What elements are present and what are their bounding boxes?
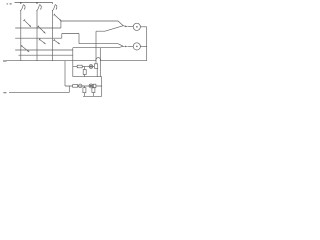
lead into motor 2 bbox=[128, 45, 134, 47]
row2 jog up bbox=[61, 34, 63, 39]
stub to QF2 bbox=[36, 3, 38, 5]
control feed vertical bbox=[72, 48, 74, 77]
output row 1 bbox=[15, 27, 61, 29]
coil KM bbox=[83, 70, 86, 75]
control rail bbox=[73, 65, 95, 67]
phase column C bbox=[52, 10, 54, 61]
bottom rail bbox=[73, 76, 102, 78]
N line left part bbox=[6, 60, 96, 62]
rail2 indicator circle 2 bbox=[89, 84, 93, 88]
switch S3 row1 colC bbox=[54, 14, 62, 21]
N label bbox=[3, 60, 7, 61]
right return rail bbox=[146, 27, 148, 61]
N line hop over control riser bbox=[96, 58, 101, 61]
riser motor2-lower to bottom rail (under hop) bbox=[99, 48, 101, 77]
rail2 indicator circle bbox=[78, 84, 82, 88]
breaker hook QF1 bbox=[20, 5, 23, 11]
jog down to motor2 upper bbox=[78, 34, 80, 44]
motor M1 circle bbox=[133, 23, 140, 30]
motor 2 lower feed bbox=[73, 46, 124, 47]
breaker hook QF3 bbox=[52, 5, 55, 11]
jog line over bbox=[62, 33, 79, 35]
label text top-left bbox=[7, 3, 12, 5]
coil KM3 to rail3 bbox=[92, 93, 94, 97]
right control vertical rail3-rail2-bottom rail bbox=[101, 77, 103, 97]
phase column A bbox=[20, 10, 22, 61]
switch S6 row3 colA bbox=[21, 45, 29, 52]
component box 2 bbox=[94, 64, 97, 69]
output row 3 bbox=[15, 49, 73, 51]
motor M2 circle bbox=[133, 43, 140, 50]
row1 riser to line A bbox=[60, 21, 62, 28]
arrow to motor 1 bbox=[125, 26, 128, 28]
switch S1 row1 colA bbox=[23, 19, 31, 27]
motor 1 to right rail bbox=[140, 26, 146, 28]
motor M2 letter bbox=[136, 46, 138, 47]
box2 drop bbox=[96, 68, 98, 76]
rail2 bbox=[65, 85, 102, 87]
motor1 feed join bbox=[123, 25, 125, 28]
switch S4 row2 colB bbox=[39, 39, 46, 45]
switch S5 row2 colC bbox=[54, 39, 60, 44]
line A to motor 1 bbox=[61, 21, 123, 26]
phase column B bbox=[36, 10, 38, 61]
coil KM3 bbox=[92, 88, 95, 93]
output row 4 bbox=[19, 54, 73, 56]
rail2 feed vertical from N bbox=[64, 61, 66, 86]
motor1 lower feed bbox=[96, 26, 123, 32]
switch S2 row1 colB bbox=[37, 26, 45, 34]
lead into motor 1 bbox=[128, 26, 133, 28]
rail3 bbox=[83, 95, 102, 97]
motor1 lower feed riser from control bbox=[95, 31, 97, 64]
motor 2 to right rail bbox=[140, 45, 146, 47]
motor2 feed join bbox=[123, 45, 124, 47]
coil KM2 drop bbox=[83, 86, 85, 88]
stub to QF1 bbox=[20, 3, 22, 5]
contact box SB bbox=[77, 65, 82, 68]
arrow to motor 2 bbox=[125, 46, 128, 48]
motor 2 upper feed bbox=[79, 44, 123, 47]
junction drop bbox=[84, 66, 86, 69]
motor M1 letter bbox=[136, 26, 138, 27]
bus corner down to QF3 bbox=[52, 3, 54, 5]
bus L top bbox=[15, 2, 53, 4]
coil KM2 to rail3 bbox=[83, 93, 85, 97]
pendant control line bbox=[9, 91, 69, 93]
rail2 component box 2 bbox=[93, 84, 96, 87]
indicator circle bbox=[89, 65, 93, 69]
pendant line drop from rail2 bbox=[68, 86, 70, 92]
coil KM2 bbox=[83, 88, 86, 93]
output row 2 bbox=[15, 37, 62, 39]
pendant line label bbox=[3, 92, 6, 93]
N line right part bbox=[101, 60, 147, 62]
breaker hook QF2 bbox=[36, 5, 39, 11]
rail2 contact box bbox=[73, 85, 78, 88]
coil to bottom rail bbox=[84, 75, 86, 77]
